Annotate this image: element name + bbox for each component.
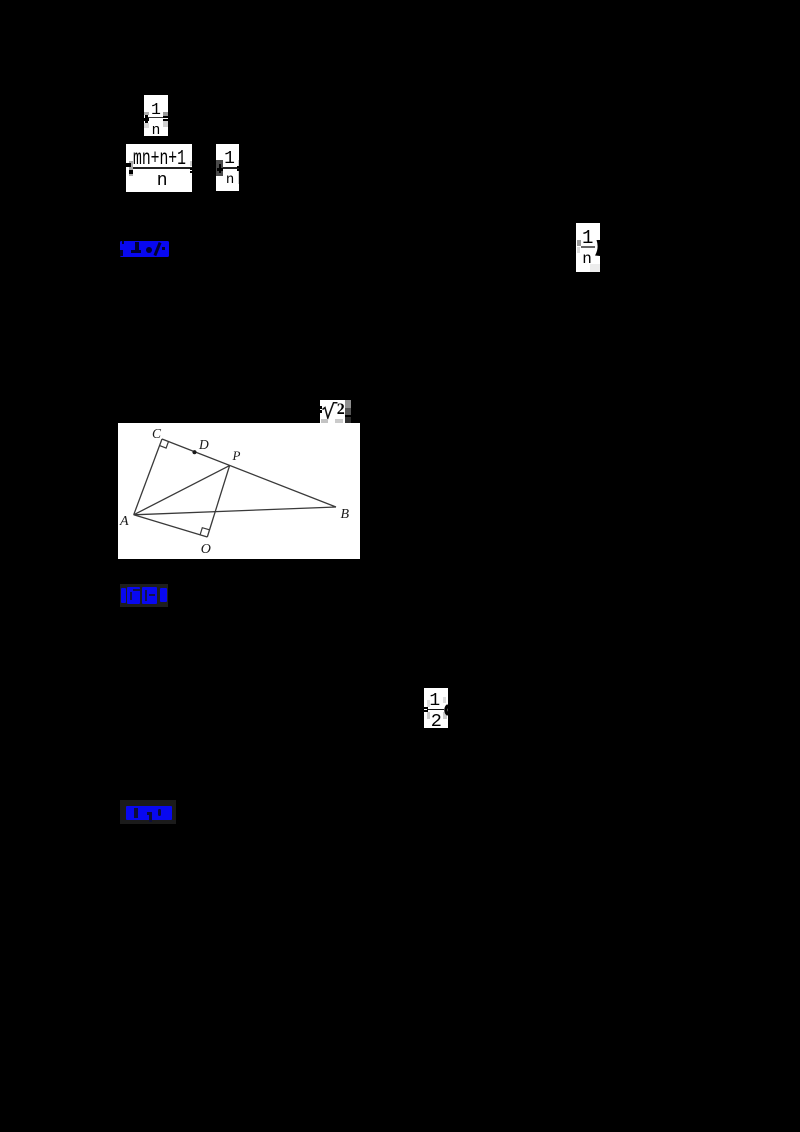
- figure image (geometry diagram): [118, 423, 360, 559]
- fraction bar: [427, 709, 444, 711]
- equals glyph overlapping right edge: [237, 166, 239, 168]
- gray artifacts left: [577, 240, 581, 246]
- dark glyph marks: [134, 808, 138, 819]
- formula image: sqrt(2): [320, 400, 345, 424]
- highlight label 3 (blue box on dark strip, dark glyphs): [120, 800, 176, 824]
- fraction bar: [581, 246, 596, 248]
- fraction bar: [146, 117, 166, 118]
- denominator 2: [431, 713, 442, 732]
- light gray strips bottom: [321, 419, 328, 424]
- gray artifacts: [443, 697, 447, 703]
- label O: [201, 543, 211, 557]
- radical sign: [320, 400, 345, 424]
- formula image: fraction 1/n (top right): [576, 223, 600, 272]
- black hook glyph overlapping right edge: [576, 223, 600, 272]
- numerator 1: [151, 102, 161, 119]
- highlight label 1 (blue box with dark glyph marks): [120, 241, 169, 257]
- gray artifacts: [144, 112, 149, 115]
- numerator 1: [429, 692, 440, 710]
- the 2: [337, 402, 345, 418]
- right angle mark at O: [200, 528, 209, 535]
- line AO: [134, 515, 208, 537]
- numerator mn+n+1: [133, 149, 186, 170]
- dark gray block left: [216, 160, 223, 176]
- light gray strip right: [238, 160, 239, 184]
- right artifacts: [190, 161, 192, 167]
- numerator 1: [582, 229, 593, 248]
- label C: [152, 427, 161, 441]
- label D: [199, 438, 209, 452]
- bracket glyph: [121, 588, 126, 603]
- line AB: [134, 507, 336, 515]
- plus glyph on gray: [219, 164, 222, 173]
- char glyph: [142, 587, 158, 605]
- partial black glyph at left edge: [320, 406, 322, 409]
- equals glyph overlapping right edge: [163, 116, 168, 118]
- equals glyph overlapping left edge: [424, 707, 428, 709]
- bracket glyph: [160, 588, 168, 602]
- formula image: fraction 1/n (first): [144, 95, 168, 136]
- label A: [120, 515, 129, 529]
- numerator 1: [224, 150, 235, 168]
- denominator n: [582, 251, 592, 267]
- gray artifact squares right of sqrt(2): [345, 400, 352, 408]
- line AC: [134, 439, 162, 515]
- light gray bottom right: [590, 264, 600, 272]
- denominator n: [226, 173, 234, 187]
- formula image: fraction 1/2: [424, 688, 448, 728]
- left artifacts: [129, 161, 134, 176]
- char glyph: [127, 587, 141, 603]
- C-shaped glyph overlapping right edge: [424, 688, 448, 728]
- line CB: [162, 439, 336, 507]
- denominator n: [152, 124, 161, 139]
- line AP: [134, 466, 230, 515]
- plus glyph overlapping left edge: [145, 115, 148, 123]
- formula image: fraction mn+n+1 over n: [126, 144, 192, 192]
- point D dot: [192, 450, 196, 454]
- highlight label 2 (blue glyphs on dark strip): [120, 584, 168, 607]
- fraction bar: [223, 167, 239, 169]
- right angle mark at C: [160, 442, 169, 449]
- line OP: [207, 466, 229, 537]
- blue block: [126, 806, 172, 821]
- label B: [341, 508, 350, 522]
- label P: [233, 449, 241, 462]
- denominator n: [157, 172, 168, 190]
- formula image: fraction 1/n (second): [216, 144, 239, 191]
- fraction bar: [133, 167, 192, 169]
